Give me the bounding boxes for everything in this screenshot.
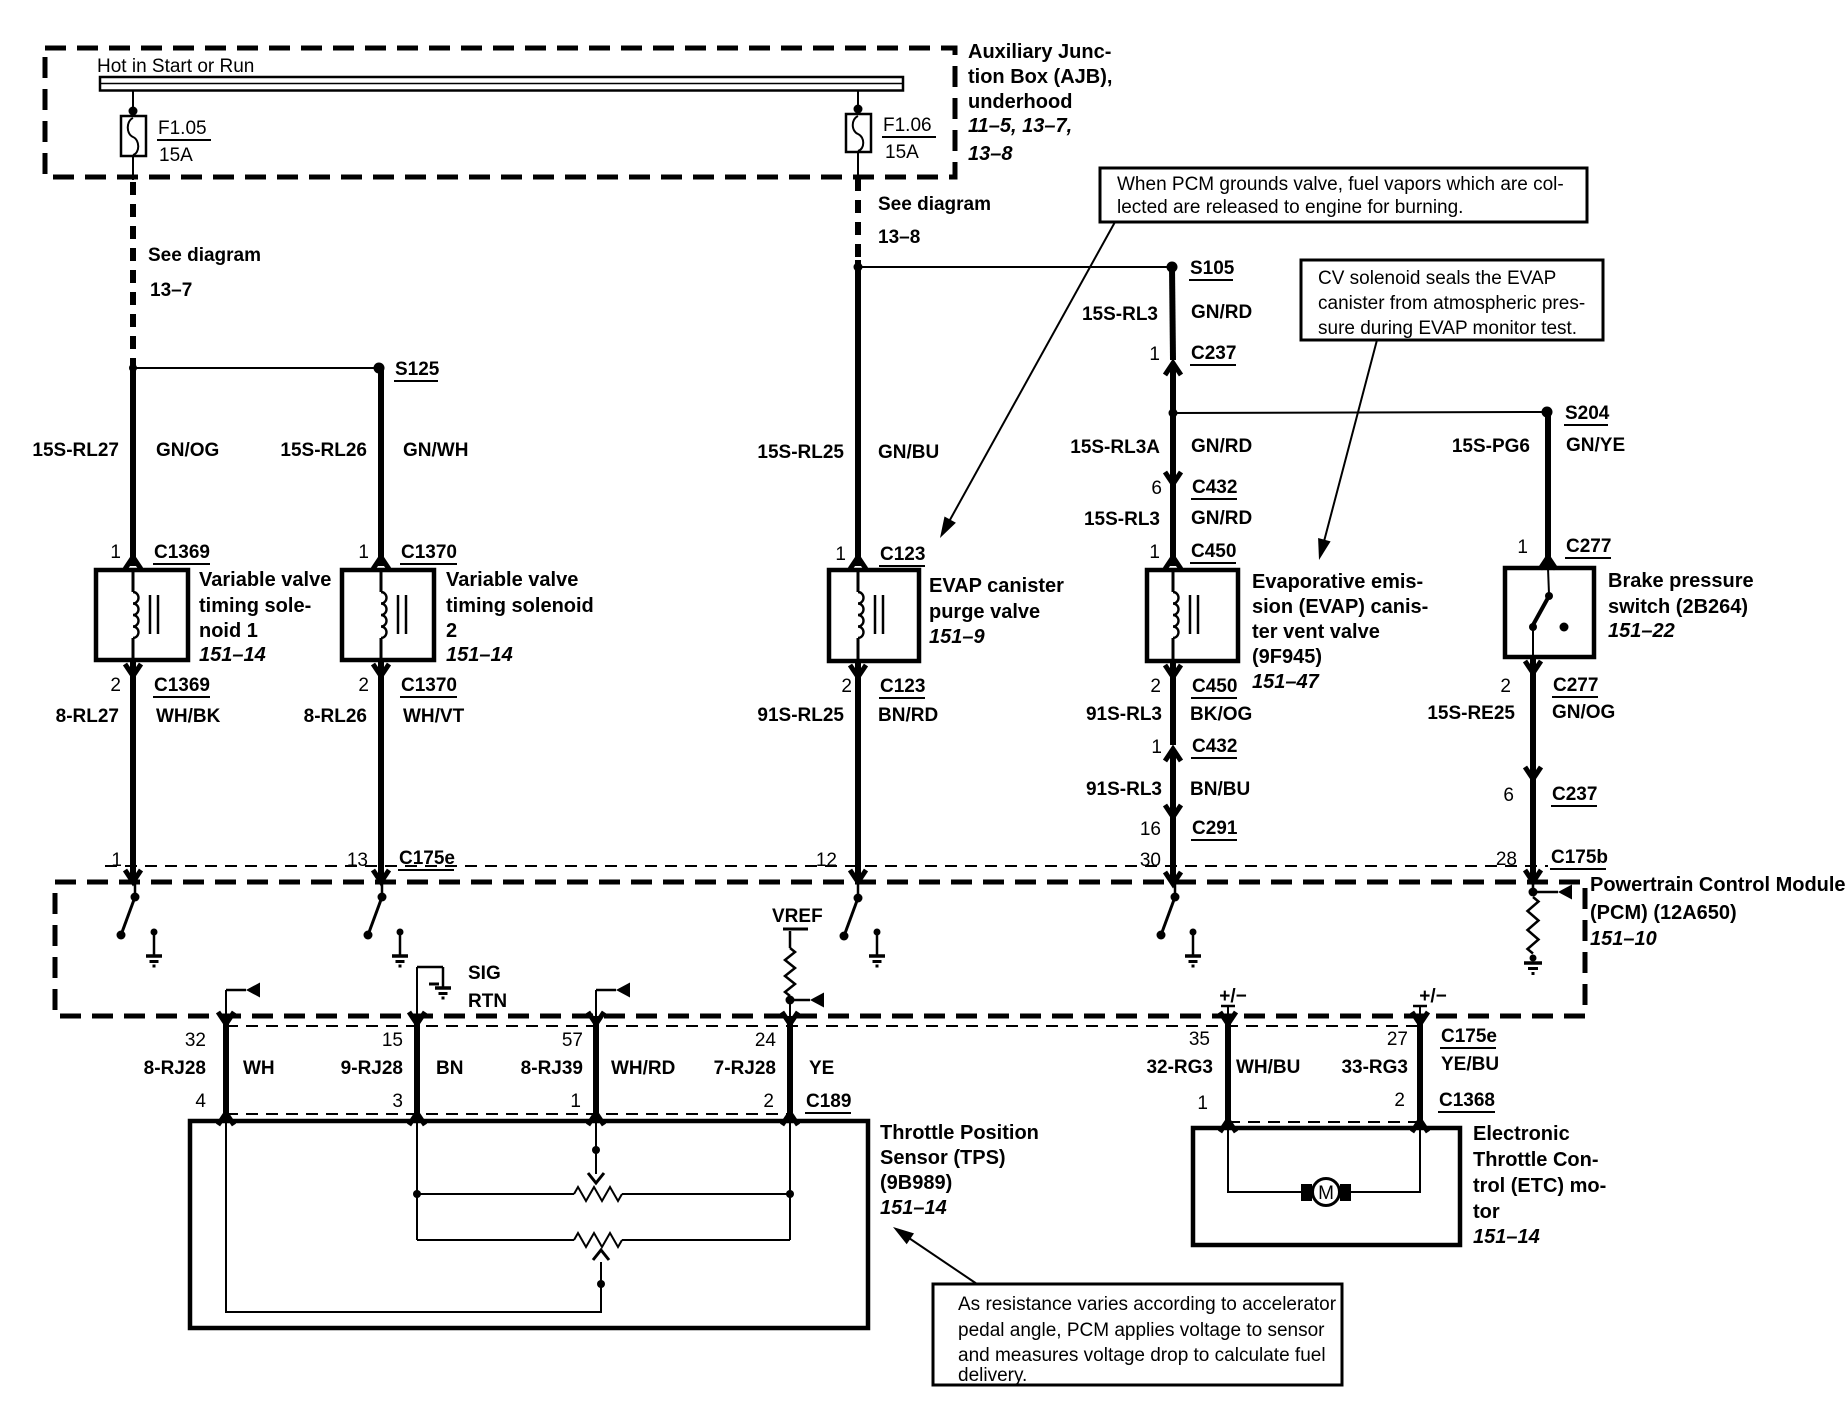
PCM internal switch (driver) col 1	[117, 881, 140, 940]
svg-text:timing solenoid: timing solenoid	[446, 595, 594, 617]
TPS pin 1 wiper arrow	[588, 1121, 604, 1183]
svg-text:15S-RE25: 15S-RE25	[1427, 703, 1515, 724]
svg-text:2: 2	[1150, 676, 1161, 697]
arrow from resistance note to TPS box	[893, 1227, 977, 1284]
op: Variable valve timing solenoid 1 (box)	[96, 569, 331, 666]
arrow from CV-solenoid note to vent valve	[1318, 340, 1377, 560]
svg-text:8-RL26: 8-RL26	[304, 706, 367, 727]
pin 28 connector C175b	[1496, 847, 1608, 882]
svg-text:C1369: C1369	[154, 675, 210, 696]
svg-text:(9B989): (9B989)	[880, 1172, 952, 1194]
svg-text:C432: C432	[1192, 477, 1237, 498]
node Hot in Start or Run label	[97, 56, 254, 77]
svg-text:35: 35	[1189, 1029, 1210, 1050]
connector C1368 thin dashed line above ETC motor	[1228, 1121, 1420, 1123]
svg-text:1: 1	[835, 544, 846, 565]
svg-text:purge valve: purge valve	[929, 601, 1040, 623]
svg-text:Auxiliary Junc-: Auxiliary Junc-	[968, 41, 1111, 63]
ground (PCM col 5)	[1524, 955, 1542, 974]
svg-text:WH/VT: WH/VT	[403, 706, 465, 727]
svg-text:6: 6	[1503, 785, 1514, 806]
pin 6 connector C237 (col 5)	[1503, 784, 1597, 806]
svg-text:2: 2	[841, 676, 852, 697]
svg-text:151–14: 151–14	[1473, 1226, 1540, 1248]
TPS pin 2 internal wire	[786, 1121, 794, 1240]
svg-text:When PCM grounds valve, fuel v: When PCM grounds valve, fuel vapors whic…	[1117, 174, 1564, 195]
svg-text:tion Box (AJB),: tion Box (AJB),	[968, 66, 1112, 88]
note: When PCM grounds valve callout	[1100, 168, 1587, 222]
svg-text:F1.06: F1.06	[883, 115, 932, 136]
svg-text:15S-RL27: 15S-RL27	[32, 440, 119, 461]
svg-text:151–14: 151–14	[199, 644, 266, 666]
svg-text:91S-RL3: 91S-RL3	[1086, 704, 1162, 725]
svg-text:2: 2	[1500, 676, 1511, 697]
svg-text:27: 27	[1387, 1029, 1408, 1050]
wire 91S-RL3 (col 4, BN/BU)	[1086, 749, 1250, 817]
svg-text:BN/RD: BN/RD	[878, 705, 938, 726]
wire col 4 to PCM pin 30	[1140, 817, 1181, 884]
svg-text:+/−: +/−	[1419, 986, 1446, 1007]
svg-text:GN/OG: GN/OG	[1552, 702, 1615, 723]
svg-text:8-RL27: 8-RL27	[56, 706, 119, 727]
wire F1.06 dashed segment (see diagram 13-8)	[858, 178, 991, 260]
svg-text:(PCM) (12A650): (PCM) (12A650)	[1590, 902, 1737, 924]
wire 15S-RL25 (col 3 upper)	[757, 260, 939, 566]
svg-text:32-RG3: 32-RG3	[1146, 1057, 1213, 1078]
svg-text:C1369: C1369	[154, 542, 210, 563]
svg-text:sure during EVAP monitor test.: sure during EVAP monitor test.	[1318, 318, 1577, 339]
svg-text:13–7: 13–7	[150, 280, 192, 301]
svg-text:30: 30	[1140, 850, 1161, 871]
svg-text:pedal angle, PCM applies volta: pedal angle, PCM applies voltage to sens…	[958, 1320, 1325, 1341]
svg-text:1: 1	[570, 1091, 581, 1112]
AJB name label	[968, 41, 1112, 165]
bus bar (power rail in AJB)	[100, 77, 903, 91]
svg-text:57: 57	[562, 1030, 583, 1051]
svg-text:C432: C432	[1192, 736, 1237, 757]
wire 7-RJ28 YE (PCM 24 to TPS 2) + connector C189	[714, 1012, 852, 1125]
svg-text:6: 6	[1151, 478, 1162, 499]
TPS pin 3 internal wire	[413, 1121, 421, 1240]
svg-text:C277: C277	[1553, 675, 1598, 696]
wire 91S-RL3 (col 4, BK/OG)	[1086, 663, 1252, 745]
Powertrain Control Module (PCM) dashed enclosure	[55, 874, 1846, 1016]
svg-text:1: 1	[1197, 1093, 1208, 1114]
svg-text:9-RJ28: 9-RJ28	[341, 1058, 403, 1079]
PCM internal switch (driver) col 4	[1157, 881, 1180, 940]
svg-text:canister from atmospheric pres: canister from atmospheric pres-	[1318, 293, 1585, 314]
svg-text:7-RJ28: 7-RJ28	[714, 1058, 776, 1079]
svg-text:C237: C237	[1552, 784, 1597, 805]
svg-text:WH/BK: WH/BK	[156, 706, 221, 727]
svg-text:15S-RL25: 15S-RL25	[757, 442, 844, 463]
svg-text:Hot in Start or Run: Hot in Start or Run	[97, 56, 254, 77]
svg-text:sion (EVAP) canis-: sion (EVAP) canis-	[1252, 596, 1428, 618]
svg-text:151–14: 151–14	[880, 1197, 947, 1219]
ETC motor internal wiring	[1228, 1128, 1420, 1192]
op: Evaporative emission (EVAP) canister vent valve (box)	[1147, 570, 1428, 693]
svg-text:See diagram: See diagram	[878, 194, 991, 215]
wire 9-RJ28 BN (PCM 15 to TPS 3)	[341, 1012, 464, 1125]
svg-text:BN: BN	[436, 1058, 463, 1079]
svg-text:switch (2B264): switch (2B264)	[1608, 596, 1748, 618]
svg-text:trol (ETC) mo-: trol (ETC) mo-	[1473, 1175, 1606, 1197]
svg-text:EVAP canister: EVAP canister	[929, 575, 1064, 597]
svg-text:C175e: C175e	[1441, 1026, 1497, 1047]
svg-text:YE/BU: YE/BU	[1441, 1054, 1499, 1075]
node S125 splice tie line	[129, 359, 440, 381]
pin 16 connector C291	[1140, 818, 1238, 840]
svg-text:S204: S204	[1565, 403, 1610, 424]
svg-text:C450: C450	[1191, 541, 1236, 562]
svg-text:91S-RL25: 91S-RL25	[757, 705, 844, 726]
wire bus to fuse F1.05	[129, 91, 138, 116]
svg-text:noid 1: noid 1	[199, 620, 258, 642]
svg-text:F1.05: F1.05	[158, 118, 207, 139]
svg-text:16: 16	[1140, 819, 1161, 840]
svg-text:(9F945): (9F945)	[1252, 646, 1322, 668]
svg-text:15S-RL3: 15S-RL3	[1082, 304, 1158, 325]
svg-text:C291: C291	[1192, 818, 1238, 839]
svg-text:RTN: RTN	[468, 991, 507, 1012]
SIG RTN ground (PCM pin 15)	[417, 963, 507, 1016]
Auxiliary Junction Box (AJB) dashed enclosure	[45, 48, 955, 177]
svg-text:SIG: SIG	[468, 963, 501, 984]
svg-text:151–22: 151–22	[1608, 620, 1675, 642]
pin 1 connector C1370	[358, 542, 457, 569]
node S105 splice tie line	[854, 258, 1235, 280]
svg-text:15S-PG6: 15S-PG6	[1452, 436, 1530, 457]
svg-text:1: 1	[358, 542, 369, 563]
svg-text:2: 2	[763, 1091, 774, 1112]
pin 1 connector C1369	[110, 542, 210, 569]
wire fuse F1.06 lower lead	[857, 152, 859, 176]
resistor (TPS upper track)	[417, 1187, 790, 1201]
fuse F1.06 15A	[846, 114, 936, 163]
svg-text:151–47: 151–47	[1252, 671, 1320, 693]
wire 15S-RL27 (col 1 upper)	[32, 368, 219, 566]
pin 2 connector C1370	[358, 664, 457, 697]
ground (PCM driver col 2)	[392, 929, 408, 967]
svg-text:Sensor (TPS): Sensor (TPS)	[880, 1147, 1006, 1169]
pin 2 connector C277	[1500, 661, 1598, 697]
svg-text:GN/RD: GN/RD	[1191, 436, 1252, 457]
svg-text:C123: C123	[880, 676, 925, 697]
svg-text:24: 24	[755, 1030, 777, 1051]
wire fuse F1.05 lower lead	[132, 156, 134, 180]
svg-text:13–8: 13–8	[968, 143, 1013, 165]
svg-text:1: 1	[1149, 344, 1160, 365]
resistor (TPS lower track)	[417, 1233, 790, 1247]
svg-text:151–14: 151–14	[446, 644, 513, 666]
svg-text:C123: C123	[880, 544, 925, 565]
note: As resistance varies callout	[933, 1284, 1342, 1386]
pin 2 connector C123	[841, 665, 925, 698]
svg-text:GN/RD: GN/RD	[1191, 508, 1252, 529]
PCM internal switch (driver) col 3	[840, 882, 863, 941]
svg-text:Variable valve: Variable valve	[446, 569, 578, 591]
svg-text:C1368: C1368	[1439, 1090, 1495, 1111]
svg-text:WH/BU: WH/BU	[1236, 1057, 1300, 1078]
svg-text:15S-RL3A: 15S-RL3A	[1070, 437, 1160, 458]
svg-text:1: 1	[1517, 537, 1528, 558]
PCM input sense node col 5 (dot + arrow)	[1529, 882, 1573, 900]
svg-text:151–9: 151–9	[929, 626, 985, 648]
connector C189 thin dashed line above TPS	[226, 1113, 790, 1115]
VREF node with resistor (PCM pin 24)	[772, 906, 824, 1016]
svg-text:13–8: 13–8	[878, 227, 920, 248]
wire 91S-RL25 (col 3 lower)	[757, 663, 938, 882]
svg-text:12: 12	[816, 850, 837, 871]
svg-text:Powertrain Control Module: Powertrain Control Module	[1590, 874, 1846, 896]
svg-text:timing sole-: timing sole-	[199, 595, 311, 617]
pin 1 connector C123	[835, 544, 925, 569]
PCM ETC driver stub pin 35 (+/-)	[1219, 986, 1246, 1016]
svg-text:Throttle Con-: Throttle Con-	[1473, 1149, 1599, 1171]
wire 15S-RL3 (col 4 mid)	[1084, 484, 1252, 566]
svg-text:underhood: underhood	[968, 91, 1072, 113]
svg-text:Throttle Position: Throttle Position	[880, 1122, 1039, 1144]
connector C189/C1368 thin dashed line below PCM	[226, 1025, 1420, 1027]
TPS lower wiper arrow	[593, 1250, 609, 1284]
svg-text:As resistance varies according: As resistance varies according to accele…	[958, 1294, 1337, 1315]
svg-text:13: 13	[347, 850, 368, 871]
svg-text:+/−: +/−	[1219, 986, 1246, 1007]
svg-text:C175b: C175b	[1551, 847, 1608, 868]
wire 15S-RL3 (col 4 top)	[1082, 267, 1252, 360]
svg-text:1: 1	[1149, 542, 1160, 563]
svg-text:S105: S105	[1190, 258, 1235, 279]
motor M (ETC)	[1301, 1179, 1351, 1206]
op: Variable valve timing solenoid 2 (box)	[342, 569, 594, 666]
node S204 splice tie line	[1173, 403, 1610, 425]
svg-text:lected are released to engine: lected are released to engine for burnin…	[1117, 197, 1463, 218]
svg-text:15A: 15A	[159, 145, 193, 166]
svg-text:BN/BU: BN/BU	[1190, 779, 1250, 800]
svg-text:M: M	[1318, 1183, 1334, 1204]
PCM output arrow pin 57	[596, 983, 630, 1017]
pin 2 connector C1369	[110, 664, 210, 697]
svg-text:4: 4	[195, 1091, 206, 1112]
svg-text:2: 2	[110, 675, 121, 696]
svg-text:C1370: C1370	[401, 675, 457, 696]
svg-text:and measures voltage drop to c: and measures voltage drop to calculate f…	[958, 1345, 1326, 1366]
svg-text:CV solenoid seals the EVAP: CV solenoid seals the EVAP	[1318, 268, 1556, 289]
svg-text:15S-RL26: 15S-RL26	[280, 440, 367, 461]
svg-text:Variable valve: Variable valve	[199, 569, 331, 591]
svg-text:15: 15	[382, 1030, 403, 1051]
wire 8-RL26 (col 2 lower)	[304, 662, 465, 882]
resistor (PCM pull-up col 5)	[1528, 897, 1539, 954]
svg-text:15A: 15A	[885, 142, 919, 163]
svg-text:15S-RL3: 15S-RL3	[1084, 509, 1160, 530]
pin 1 connector C237 (col 4)	[1149, 343, 1236, 375]
svg-text:2: 2	[358, 675, 369, 696]
PCM output arrow pin 32	[226, 983, 260, 1017]
wire 8-RJ28 WH (PCM 32 to TPS 4)	[144, 1012, 275, 1125]
svg-text:1: 1	[110, 542, 121, 563]
svg-text:ter vent valve: ter vent valve	[1252, 621, 1380, 643]
svg-text:C237: C237	[1191, 343, 1236, 364]
svg-text:GN/BU: GN/BU	[878, 442, 939, 463]
ground (PCM driver col 1)	[146, 929, 162, 967]
svg-text:2: 2	[1394, 1090, 1405, 1111]
svg-text:C1370: C1370	[401, 542, 457, 563]
svg-text:11–5, 13–7,: 11–5, 13–7,	[968, 115, 1072, 137]
op: EVAP canister purge valve (box)	[829, 570, 1064, 661]
ground (PCM driver col 4)	[1185, 929, 1201, 967]
pin 2 connector C450	[1150, 665, 1237, 698]
svg-text:151–10: 151–10	[1590, 928, 1657, 950]
wire 15S-PG6 (col 5 upper)	[1452, 412, 1625, 566]
svg-text:C450: C450	[1192, 676, 1237, 697]
connector C175 thin dashed line above PCM	[105, 865, 1548, 867]
wire 32-RG3 WH/BU (PCM 35 to ETC 1)	[1146, 1012, 1300, 1132]
svg-text:GN/RD: GN/RD	[1191, 302, 1252, 323]
svg-text:C277: C277	[1566, 536, 1611, 557]
svg-text:1: 1	[111, 850, 122, 871]
svg-text:8-RJ28: 8-RJ28	[144, 1058, 206, 1079]
svg-text:91S-RL3: 91S-RL3	[1086, 779, 1162, 800]
ground (PCM driver col 3)	[869, 929, 885, 967]
svg-text:Electronic: Electronic	[1473, 1123, 1570, 1145]
svg-text:Evaporative emis-: Evaporative emis-	[1252, 571, 1423, 593]
actuator: Electronic Throttle Control (ETC) motor box	[1193, 1123, 1606, 1248]
svg-text:S125: S125	[395, 359, 440, 380]
note: CV solenoid callout	[1301, 260, 1603, 340]
wire 8-RL27 (col 1 lower)	[56, 662, 221, 882]
svg-text:YE: YE	[809, 1058, 834, 1079]
arrow from PCM-grounds note to purge valve wire	[940, 222, 1115, 538]
svg-text:33-RG3: 33-RG3	[1341, 1057, 1408, 1078]
svg-text:1: 1	[1151, 737, 1162, 758]
switch: Brake pressure switch 2B264 (box)	[1505, 568, 1754, 657]
wire 15S-RE25 (col 5 lower)	[1427, 659, 1615, 882]
svg-text:delivery.: delivery.	[958, 1365, 1027, 1386]
svg-text:C189: C189	[806, 1091, 851, 1112]
fuse F1.05 15A	[121, 116, 211, 166]
PCM internal switch (driver) col 2	[364, 881, 387, 940]
sensor: Throttle Position Sensor (TPS) box	[190, 1121, 1039, 1328]
pin 1 connector C450	[1149, 541, 1236, 569]
svg-text:GN/WH: GN/WH	[403, 440, 468, 461]
svg-text:Brake pressure: Brake pressure	[1608, 570, 1754, 592]
svg-text:See diagram: See diagram	[148, 245, 261, 266]
wire bus to fuse F1.06	[854, 91, 863, 114]
svg-text:tor: tor	[1473, 1201, 1500, 1223]
svg-text:GN/YE: GN/YE	[1566, 435, 1625, 456]
svg-text:BK/OG: BK/OG	[1190, 704, 1252, 725]
TPS pin 4 internal wire	[226, 1121, 605, 1312]
svg-text:VREF: VREF	[772, 906, 823, 927]
wire 8-RJ39 WH/RD (PCM 57 to TPS 1)	[521, 1012, 676, 1125]
wire F1.05 dashed segment (see diagram 13-7)	[133, 182, 261, 366]
svg-text:3: 3	[392, 1091, 403, 1112]
pin 1 connector C277	[1517, 536, 1611, 569]
svg-text:2: 2	[446, 620, 457, 642]
svg-text:32: 32	[185, 1030, 206, 1051]
pin 6 connector C432 (col 4)	[1151, 477, 1237, 499]
wire 15S-RL3A (col 4, S204 tap)	[1070, 363, 1252, 484]
wire 15S-RL26 (col 2 upper)	[280, 368, 468, 566]
svg-text:8-RJ39: 8-RJ39	[521, 1058, 583, 1079]
wire 33-RG3 YE/BU (PCM 27 to ETC 2) + connectors C175e/C1368	[1341, 1012, 1499, 1132]
PCM ETC driver stub pin 27 (+/-)	[1413, 986, 1447, 1016]
pin 1 connector C432 lower	[1151, 736, 1237, 761]
svg-text:WH/RD: WH/RD	[611, 1058, 675, 1079]
svg-text:GN/OG: GN/OG	[156, 440, 219, 461]
svg-text:WH: WH	[243, 1058, 275, 1079]
